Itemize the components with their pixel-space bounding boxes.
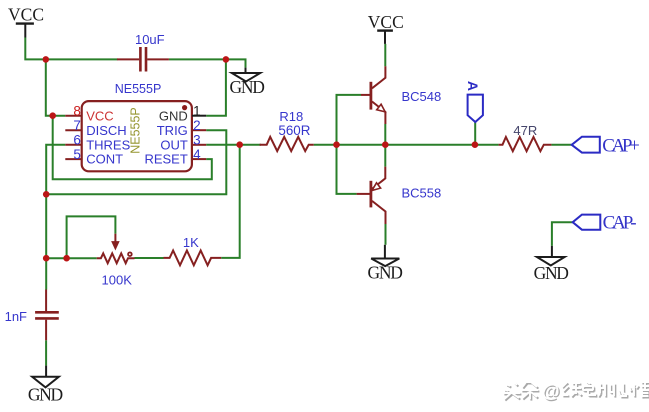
wire TRIG pin 2 feedback xyxy=(46,130,226,194)
testpoint A flag xyxy=(468,95,483,122)
svg-text:8: 8 xyxy=(73,103,81,118)
node B junction xyxy=(223,56,230,63)
svg-text:1: 1 xyxy=(193,103,201,118)
svg-text:5: 5 xyxy=(73,147,81,162)
svg-text:100K: 100K xyxy=(102,273,133,288)
wire THRES pin 6 down left rail xyxy=(46,145,65,290)
svg-text:CAP+: CAP+ xyxy=(602,136,640,157)
node A junction xyxy=(43,56,50,63)
wire pot to 1K xyxy=(135,257,164,259)
svg-text:BC548: BC548 xyxy=(402,89,442,104)
svg-text:3: 3 xyxy=(193,133,201,148)
connector CAP- flag xyxy=(573,215,601,230)
pin 6 stub xyxy=(65,144,81,146)
svg-text:1nF: 1nF xyxy=(5,309,27,324)
resistor 1K xyxy=(164,251,222,266)
node H junction wiper xyxy=(63,255,70,262)
node F junction emitters xyxy=(382,141,389,148)
power VCC2 symbol xyxy=(377,31,393,44)
wire BC548 emitter down xyxy=(384,124,386,145)
resistor R18 560R xyxy=(260,137,314,151)
wire CAP- flag to GND xyxy=(552,222,573,246)
svg-text:NE555P: NE555P xyxy=(115,82,162,96)
svg-text:OUT: OUT xyxy=(160,137,188,152)
svg-text:VCC: VCC xyxy=(368,12,404,32)
wire 1K right up to OUT xyxy=(221,145,240,258)
transistor Q2 BC558 xyxy=(357,167,386,224)
node I junction rail pot xyxy=(43,255,50,262)
watermark toutiao xyxy=(503,381,649,403)
svg-text:THRES: THRES xyxy=(86,137,130,152)
wire base junction up to BC548 xyxy=(337,95,362,145)
node C junction pin8 xyxy=(49,112,56,119)
svg-text:BC558: BC558 xyxy=(402,186,442,201)
ground GND4 symbol xyxy=(537,246,565,266)
svg-text:VCC: VCC xyxy=(8,4,44,24)
pin 1 stub xyxy=(192,115,206,117)
wire BC558 emitter up xyxy=(384,145,386,167)
svg-text:RESET: RESET xyxy=(144,152,187,167)
capacitor C2 1nF xyxy=(35,290,59,341)
pin 3 stub xyxy=(192,144,206,146)
wire 47R to CAP+ flag xyxy=(551,144,571,146)
wire 10uF right to GND corner xyxy=(169,59,246,67)
svg-text:560R: 560R xyxy=(278,123,310,138)
wire VCC rail down to pin 8 xyxy=(46,59,66,115)
svg-text:DISCH: DISCH xyxy=(86,123,126,138)
svg-text:4: 4 xyxy=(193,147,201,162)
pin 7 stub xyxy=(65,129,81,131)
pin 8 stub xyxy=(65,115,81,117)
wire 1nF bottom to GND xyxy=(45,340,47,365)
svg-text:CAP-: CAP- xyxy=(603,212,637,233)
svg-text:NE555P: NE555P xyxy=(129,107,143,154)
wire A testpoint stem xyxy=(474,122,476,145)
connector CAP+ flag xyxy=(572,137,600,153)
svg-text:7: 7 xyxy=(73,118,81,133)
wire pot row left xyxy=(46,257,96,259)
wire VCC1 stem to rail xyxy=(25,38,46,60)
resistor 47R xyxy=(499,137,552,151)
pin 2 stub xyxy=(192,129,206,131)
svg-text:47R: 47R xyxy=(513,123,537,138)
power VCC1 symbol xyxy=(16,24,34,38)
svg-text:1K: 1K xyxy=(183,235,199,250)
svg-text:6: 6 xyxy=(73,133,81,148)
svg-text:GND: GND xyxy=(534,263,569,283)
svg-text:10uF: 10uF xyxy=(135,32,165,47)
op-amp U1 NE555P box xyxy=(82,101,192,171)
svg-text:GND: GND xyxy=(159,108,188,123)
svg-text:A: A xyxy=(465,81,481,91)
wire base junction down to BC558 xyxy=(337,145,357,194)
svg-text:GND: GND xyxy=(230,77,265,97)
wire top rail to 10uF left xyxy=(46,58,118,60)
wire R18 to 47R main row xyxy=(314,144,499,146)
svg-text:@: @ xyxy=(542,381,560,401)
wire VCC to RESET pin 4 xyxy=(53,116,212,180)
wire pot wiper loop xyxy=(67,216,116,258)
node J junction trig thres xyxy=(43,191,50,198)
svg-text:GND: GND xyxy=(368,262,403,282)
svg-text:TRIG: TRIG xyxy=(157,123,188,138)
svg-text:2: 2 xyxy=(193,118,201,133)
ground GND3 symbol xyxy=(32,366,59,388)
svg-text:CONT: CONT xyxy=(86,152,123,167)
svg-text:VCC: VCC xyxy=(86,108,113,123)
node E junction bases xyxy=(333,141,340,148)
pin 4 stub xyxy=(192,158,206,160)
wire OUT pin 3 to R18 xyxy=(206,144,261,146)
wire BC558 collector to GND xyxy=(385,224,387,245)
pin 1 marker dot xyxy=(182,105,187,110)
ground GND1 symbol xyxy=(232,68,260,82)
capacitor C1 10uF xyxy=(117,47,169,72)
pin 5 stub xyxy=(65,158,81,160)
potentiometer 100K xyxy=(97,234,135,264)
transistor Q1 BC548 xyxy=(361,66,385,124)
ground GND2 symbol xyxy=(371,245,399,266)
node D junction OUT xyxy=(236,141,243,148)
node G junction testpoint xyxy=(472,141,479,148)
wire VCC2 to BC548 collector xyxy=(384,44,386,66)
wire GND to pin 1 xyxy=(206,59,226,115)
svg-text:GND: GND xyxy=(28,384,63,404)
